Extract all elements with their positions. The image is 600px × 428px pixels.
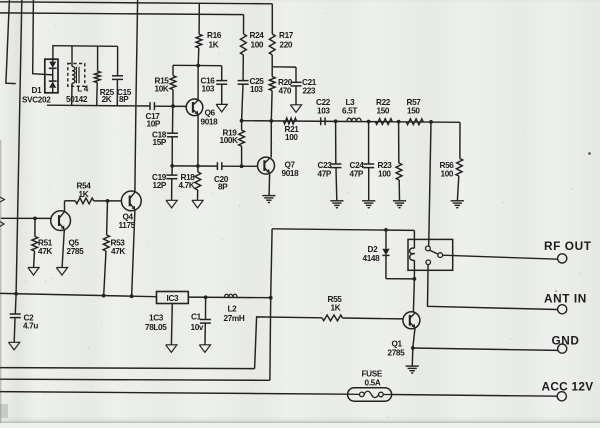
ground C21 — [290, 105, 301, 113]
svg-text:1175: 1175 — [119, 221, 136, 230]
terminal ANT IN — [558, 305, 567, 314]
regulator IC3 box — [157, 292, 189, 304]
capacitor C1 — [205, 297, 207, 319]
resistor R54 — [64, 201, 66, 211]
wire Q1 ground lead — [411, 348, 414, 366]
svg-text:4148: 4148 — [363, 254, 381, 263]
wire ANT line — [428, 265, 558, 310]
inductor L4 shield box — [68, 64, 85, 87]
scan artifacts — [194, 64, 195, 65]
wire bottom node rail — [47, 104, 149, 107]
resistor R22 — [375, 119, 392, 125]
terminal ACC 12V — [557, 392, 566, 401]
ground C2 — [9, 342, 20, 350]
svg-text:103: 103 — [202, 85, 215, 94]
ground C19 — [166, 200, 177, 208]
node GND line — [411, 346, 415, 350]
wire emitter node line — [172, 165, 217, 167]
varactor D1 box — [45, 59, 58, 93]
wire Q6 emitter — [197, 115, 199, 172]
svg-text:100: 100 — [441, 170, 454, 179]
svg-text:10v: 10v — [191, 323, 204, 332]
svg-text:47P: 47P — [350, 170, 364, 179]
svg-text:RF OUT: RF OUT — [544, 239, 592, 253]
ground C16 — [216, 104, 227, 112]
terminal RF OUT — [558, 254, 567, 263]
wire vertical to Q4 collector — [135, 0, 138, 191]
svg-text:C1: C1 — [191, 312, 202, 321]
svg-text:1K: 1K — [79, 190, 89, 199]
resistor R21 — [284, 118, 297, 124]
wire Q4 emitter — [132, 210, 135, 297]
wire 5V vertical — [270, 229, 272, 380]
capacitor C20 — [216, 162, 218, 170]
capacitor C22 — [320, 117, 322, 125]
svg-text:R17: R17 — [279, 31, 294, 40]
wire relay coil rail — [272, 229, 414, 231]
svg-text:8P: 8P — [119, 95, 129, 104]
inductor L4 core lines — [75, 67, 77, 83]
transistor Q7 — [258, 157, 275, 174]
inductor L2 — [225, 294, 238, 297]
relay contact NC — [426, 260, 431, 265]
svg-text:4.7K: 4.7K — [179, 181, 195, 190]
svg-text:2785: 2785 — [67, 247, 85, 256]
svg-text:103: 103 — [250, 85, 263, 94]
node coil bottom — [413, 277, 417, 281]
resistor R20 — [271, 67, 273, 77]
svg-text:4.7u: 4.7u — [23, 322, 38, 331]
svg-text:L 4: L 4 — [77, 84, 88, 93]
capacitor C18 — [172, 106, 174, 133]
svg-text:FUSE: FUSE — [362, 369, 383, 378]
wire vertical to C2 node — [16, 0, 22, 294]
node R51 — [33, 217, 37, 221]
wire bus line 1 — [0, 368, 255, 369]
svg-text:12P: 12P — [153, 181, 167, 190]
capacitor C19 — [171, 166, 173, 175]
wire relay contact feed — [429, 122, 431, 246]
ground R23 — [393, 200, 406, 202]
ground Q7 — [262, 195, 275, 197]
svg-text:50142: 50142 — [66, 95, 88, 104]
resistor R25 — [97, 46, 99, 71]
inductor L4 coil — [71, 46, 73, 67]
node C24 — [367, 120, 371, 124]
capacitor C25 — [238, 80, 249, 82]
wire bus line 2 — [0, 379, 270, 380]
relay contact common — [438, 253, 443, 258]
fuse element — [348, 391, 392, 397]
wire IC3 ground lead — [170, 304, 173, 345]
svg-text:15P: 15P — [153, 138, 167, 147]
svg-text:2K: 2K — [102, 95, 112, 104]
wire Q1 collector — [413, 279, 414, 312]
svg-text:D1: D1 — [32, 86, 43, 95]
varactor D1 diodes — [49, 62, 56, 68]
terminal GND — [558, 344, 567, 353]
resistor R18 — [195, 172, 201, 190]
svg-text:47K: 47K — [111, 247, 125, 256]
wire C17 to Q6 base — [154, 105, 186, 107]
wire bus line 3 to fuse — [0, 392, 348, 395]
wire top rail A — [0, 2, 272, 4]
wire D2 to coil bottom — [386, 278, 415, 280]
capacitor C24 — [368, 122, 370, 164]
wire vertical stub left — [6, 0, 16, 84]
svg-text:0.5A: 0.5A — [365, 379, 381, 388]
wire Q7 collector — [270, 121, 272, 158]
svg-text:8P: 8P — [218, 182, 228, 191]
svg-text:R16: R16 — [207, 31, 222, 40]
node R15 base junction — [171, 104, 175, 108]
node C1 — [204, 295, 208, 299]
relay lever — [429, 250, 438, 254]
ground R18 — [192, 200, 203, 208]
capacitor C17 — [149, 102, 151, 110]
svg-text:6.5T: 6.5T — [342, 106, 357, 115]
capacitor C15 — [117, 46, 119, 75]
wire R17-R20 node to C21 — [272, 66, 296, 68]
capacitor C16 — [221, 66, 223, 81]
capacitor C23 — [335, 121, 337, 163]
resistor R17 — [271, 4, 273, 34]
svg-text:ANT IN: ANT IN — [544, 291, 587, 305]
svg-text:R24: R24 — [250, 31, 265, 40]
node R20 collector — [269, 119, 273, 123]
relay box — [408, 239, 453, 270]
transistor Q6 — [186, 99, 203, 116]
svg-text:1K: 1K — [331, 304, 341, 313]
ground Q5 — [56, 268, 67, 276]
resistor R16 — [198, 3, 200, 34]
node R23 — [397, 120, 401, 124]
capacitor C2 — [14, 294, 17, 314]
svg-text:10K: 10K — [155, 85, 169, 94]
wire RF out line — [443, 255, 558, 259]
ground R56 — [451, 200, 464, 202]
wire supply bus to IC3 — [0, 293, 157, 296]
capacitor C21 — [295, 67, 297, 82]
resistor R15 — [172, 65, 174, 75]
node C18-C19 — [170, 164, 174, 168]
wire Q6 collector node line — [173, 64, 222, 66]
svg-text:IC3: IC3 — [167, 294, 179, 303]
ground Q1 — [406, 365, 419, 367]
wire Q5 emitter — [62, 230, 64, 267]
wire top node rail — [52, 45, 117, 48]
relay contact NO — [426, 246, 431, 251]
diode D2 — [385, 230, 387, 249]
resistor R23 — [398, 122, 400, 163]
svg-text:9018: 9018 — [282, 169, 300, 178]
node L2 out — [269, 296, 273, 300]
svg-text:78L05: 78L05 — [145, 323, 167, 332]
wire ACC line — [392, 395, 558, 397]
svg-text:L2: L2 — [228, 304, 238, 313]
svg-text:1K: 1K — [209, 40, 219, 49]
resistor R55 — [322, 315, 343, 321]
resistor R24 — [243, 15, 245, 34]
svg-text:220: 220 — [280, 40, 293, 49]
node R19 base — [240, 164, 244, 168]
resistor R53 — [106, 201, 109, 235]
resistor R51 — [34, 218, 36, 236]
node C23 — [334, 119, 338, 123]
fuse F1 body — [348, 388, 392, 402]
node C25-R19 — [240, 119, 244, 123]
svg-text:100K: 100K — [220, 136, 239, 145]
node R53 bus — [102, 294, 106, 298]
node Q6 collector — [196, 64, 200, 68]
wire main RF rail — [242, 121, 460, 123]
wire Q7 emitter — [268, 173, 271, 195]
svg-text:ACC 12V: ACC 12V — [542, 380, 594, 394]
svg-text:9018: 9018 — [201, 117, 219, 126]
wire edge fragment — [0, 197, 5, 202]
svg-text:D2: D2 — [368, 245, 379, 254]
wire Q6 collector — [197, 66, 199, 100]
svg-text:2785: 2785 — [388, 348, 406, 357]
node R18 emitter — [196, 164, 200, 168]
wire C20 to Q7 base — [222, 165, 258, 167]
ground C23 — [330, 200, 343, 202]
svg-text:GND: GND — [552, 333, 580, 347]
resistor R57 — [406, 119, 423, 125]
wire GND line — [413, 348, 558, 350]
svg-text:47P: 47P — [318, 170, 332, 179]
wire Q1 emitter — [413, 328, 415, 348]
wire top rail B — [0, 13, 244, 15]
node Q4 bus — [130, 294, 134, 298]
svg-text:103: 103 — [317, 106, 330, 115]
svg-text:470: 470 — [279, 86, 292, 95]
node D2 — [384, 228, 388, 232]
svg-text:27mH: 27mH — [224, 314, 245, 323]
wire R55 riser — [255, 317, 322, 369]
transistor Q5 — [51, 211, 71, 231]
node relay feed — [429, 120, 433, 124]
ground IC3 — [166, 345, 177, 353]
fuse contacts — [360, 392, 365, 397]
inductor L3 — [347, 118, 361, 121]
relay coil — [413, 230, 415, 248]
transistor Q1 — [403, 312, 420, 329]
svg-text:150: 150 — [407, 106, 420, 115]
wire Q5 base — [1, 217, 51, 219]
ground R51 — [28, 268, 39, 276]
svg-text:100: 100 — [251, 40, 264, 49]
svg-text:47K: 47K — [38, 247, 52, 256]
svg-text:100: 100 — [378, 170, 391, 179]
svg-text:100: 100 — [285, 133, 298, 142]
svg-text:150: 150 — [377, 106, 390, 115]
wire vertical to D1 — [33, 0, 53, 75]
wire IC3 output — [188, 296, 270, 299]
wire R55 to Q1 base — [343, 317, 403, 320]
node R53 — [106, 199, 110, 203]
svg-text:223: 223 — [303, 86, 316, 95]
svg-text:Q1: Q1 — [392, 339, 403, 348]
transistor Q4 — [121, 191, 141, 211]
svg-text:SVC202: SVC202 — [22, 95, 51, 104]
svg-text:10P: 10P — [147, 120, 161, 129]
ground C1 — [199, 345, 210, 353]
svg-text:1C3: 1C3 — [149, 314, 164, 323]
node C2 — [14, 292, 18, 296]
resistor R56 — [459, 122, 461, 158]
resistor R19 — [241, 121, 243, 131]
ground C24 — [362, 200, 375, 202]
wire D1 top lead — [52, 46, 54, 59]
